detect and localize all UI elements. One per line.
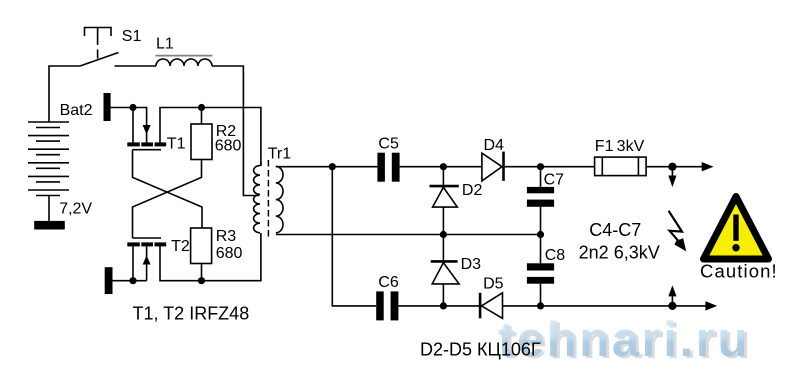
ground bar <box>35 222 64 229</box>
transformer Tr1 secondary winding <box>276 166 283 232</box>
wire F1 to output <box>646 166 703 168</box>
battery Bat2 plates <box>28 122 69 196</box>
svg-text:Tr1: Tr1 <box>268 146 292 163</box>
node dot at R2 top <box>198 104 205 111</box>
resistor R2 <box>191 124 212 160</box>
svg-text:F1 3kV: F1 3kV <box>595 138 645 155</box>
output arrow bottom <box>705 301 717 310</box>
node dot at D2 top <box>440 163 447 170</box>
wire switch to L1 <box>115 65 157 67</box>
transformer Tr1 primary winding <box>254 166 260 233</box>
svg-text:D4: D4 <box>484 137 505 154</box>
wire T1 drain up and right to R2 node <box>160 108 202 143</box>
wire secondary top to C5 node <box>276 166 333 168</box>
svg-text:Caution!: Caution! <box>700 261 778 282</box>
node dot C7 bottom <box>537 231 544 238</box>
node dot at T1 gate feed <box>129 104 136 111</box>
wire T2 dash1 to minus rail <box>132 246 134 280</box>
wire node to T1 arrow lead <box>133 108 147 143</box>
node dot secondary top <box>329 163 336 170</box>
cross-coupling R2 bottom to T2 gate <box>133 160 202 239</box>
wire D4 to F1 <box>504 166 595 168</box>
svg-text:C4-C7: C4-C7 <box>589 220 641 240</box>
transistor T1 contact dashes <box>127 142 166 146</box>
wire node to T1 dash1 <box>132 108 134 143</box>
node dot output top <box>668 163 676 171</box>
capacitor C6 <box>376 291 398 320</box>
wire + bar to T1 node <box>111 107 133 109</box>
switch S1 blade <box>80 53 119 67</box>
svg-text:D2-D5 КЦ106Г: D2-D5 КЦ106Г <box>420 340 541 360</box>
svg-text:R3: R3 <box>216 228 237 245</box>
transistor T2 gate line <box>133 237 162 239</box>
node dot D3 bottom <box>440 302 447 309</box>
transistor T2 contact dashes <box>127 242 166 246</box>
wire R2 top lead <box>201 108 203 125</box>
svg-text:680: 680 <box>215 138 242 155</box>
diode D3 <box>431 235 459 306</box>
svg-text:T1: T1 <box>167 135 186 152</box>
svg-text:C5: C5 <box>378 136 399 153</box>
capacitor C8 <box>527 235 554 306</box>
capacitor C7 <box>527 167 554 235</box>
spark gap arrow up <box>668 285 676 306</box>
svg-text:2n2 6,3kV: 2n2 6,3kV <box>579 243 660 263</box>
T2 body arrow (up) <box>143 256 151 265</box>
transistor T1 gate line <box>133 149 162 151</box>
cross-coupling T1 gate to R3 top <box>133 150 203 228</box>
svg-text:T2: T2 <box>171 238 190 255</box>
svg-text:680: 680 <box>216 245 243 262</box>
svg-text:D2: D2 <box>462 182 483 199</box>
transformer Tr1 primary leads <box>260 162 262 166</box>
transformer Tr1 core (dashed) <box>267 160 269 238</box>
svg-text:S1: S1 <box>122 28 142 45</box>
svg-text:Bat2: Bat2 <box>60 102 93 119</box>
svg-text:C6: C6 <box>378 274 399 291</box>
wire battery top to switch <box>49 66 80 122</box>
wire C6 to D5 <box>398 305 480 307</box>
diode D4 <box>482 152 504 181</box>
wire battery bottom to ground <box>48 196 50 223</box>
wire L1 to transformer center tap <box>212 66 259 196</box>
resistor R3 <box>191 228 212 264</box>
inductor L1 core bar <box>155 55 212 57</box>
node dot output bottom <box>668 302 676 310</box>
svg-text:C8: C8 <box>545 247 566 264</box>
node dot at T2 source <box>129 277 136 284</box>
fuse F1 <box>595 157 647 176</box>
wire R3 bottom lead <box>201 264 203 281</box>
output arrow top <box>702 162 714 171</box>
switch S1 button actuator <box>85 28 112 59</box>
svg-text:D5: D5 <box>483 275 504 292</box>
diode D5 <box>480 293 502 319</box>
wire top rail to C5 <box>332 166 377 168</box>
capacitor C5 <box>377 153 399 182</box>
wire R2 node to transformer primary top <box>202 108 261 167</box>
wire minus bar to arrow lead <box>113 280 147 282</box>
lightning bolt <box>669 211 687 252</box>
node dot at R3 bottom <box>198 277 205 284</box>
svg-text:C7: C7 <box>544 172 565 189</box>
wire C5 to D4 <box>400 166 482 168</box>
node dot D2 bottom <box>440 231 447 238</box>
supply terminal bar - <box>105 267 113 294</box>
node dot at C7 top <box>537 163 544 170</box>
svg-text:L1: L1 <box>156 36 174 53</box>
svg-text:T1, T2 IRFZ48: T1, T2 IRFZ48 <box>133 304 250 324</box>
diode D2 <box>430 167 459 235</box>
wire top node down to bottom branch <box>332 167 376 306</box>
wire T2 drain to primary bottom <box>160 233 261 281</box>
inductor L1 <box>156 59 212 66</box>
T1 body arrow (down) <box>143 125 151 135</box>
middle rail wire <box>276 234 541 236</box>
svg-text:D3: D3 <box>461 256 482 273</box>
T2 body arrow lead <box>146 246 148 280</box>
warning triangle <box>704 197 769 260</box>
supply terminal bar + <box>104 93 111 121</box>
node dot C8 bottom <box>537 302 544 309</box>
svg-text:7,2V: 7,2V <box>59 201 92 218</box>
wire D5 to output bottom <box>503 305 708 307</box>
spark gap arrow down <box>668 167 676 187</box>
watermark tehnari.ru <box>498 313 753 369</box>
